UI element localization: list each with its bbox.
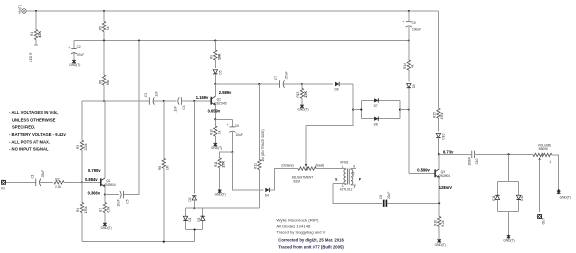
svg-text:130k: 130k [84, 206, 88, 213]
svg-text:27K: 27K [222, 161, 226, 168]
svg-text:D9: D9 [412, 84, 416, 88]
svg-text:D12: D12 [520, 195, 524, 201]
wire rail1 +9V top rail [26, 10, 438, 12]
wire floating rail bottom [82, 241, 195, 243]
wire D6 to corner down [339, 83, 353, 85]
svg-text:68k: 68k [106, 79, 110, 85]
svg-text:D6: D6 [335, 88, 339, 92]
resistor R10 (Q2 emitter) [210, 119, 222, 143]
svg-text:Traced by Soggybag and V: Traced by Soggybag and V [276, 230, 325, 235]
svg-text:2N3904: 2N3904 [105, 183, 116, 187]
svg-text:D2: D2 [188, 197, 192, 201]
svg-text:- ALL POTS AT MAX.: - ALL POTS AT MAX. [9, 139, 50, 144]
svg-text:+: + [227, 123, 229, 127]
node box left [360, 109, 362, 111]
node rail1/R5 junction [103, 10, 105, 12]
wire R3 top corner [81, 101, 83, 136]
svg-text:C4: C4 [182, 105, 186, 109]
svg-text:R5: R5 [98, 26, 102, 30]
svg-text:C10: C10 [475, 158, 479, 164]
svg-text:R9: R9 [210, 55, 214, 59]
capacitor C3 (coupling) [144, 91, 164, 104]
resistor R13 27K [296, 84, 308, 105]
svg-text:D1: D1 [188, 217, 192, 221]
node C3/R8 junction [163, 100, 165, 102]
svg-text:D7: D7 [374, 104, 378, 108]
svg-text:47uF: 47uF [77, 53, 84, 57]
capacitor C8 22uF [379, 192, 439, 207]
svg-text:0.659v: 0.659v [208, 109, 221, 114]
node Q1 emitter junction [104, 194, 106, 196]
transistor Q1 2N3904 [101, 101, 116, 195]
svg-text:130k: 130k [440, 112, 444, 119]
svg-text:C9: C9 [412, 21, 416, 25]
svg-text:10uF: 10uF [236, 133, 243, 137]
svg-text:100uF: 100uF [412, 28, 421, 32]
svg-text:LED R: LED R [29, 52, 33, 62]
node D9 line junction [408, 109, 410, 111]
capacitor C6 10uF (emitter bypass) [215, 119, 243, 152]
capacitor C4 (coupling) [173, 97, 211, 112]
svg-text:220k: 220k [84, 143, 88, 150]
svg-text:GND(T): GND(T) [435, 243, 446, 247]
node rail2/R9 [214, 39, 216, 41]
svg-text:1: 1 [342, 165, 344, 169]
svg-text:42TL012: 42TL012 [340, 188, 353, 192]
resistor R5 (rail1 to rail2) [98, 11, 110, 41]
svg-text:0.366v: 0.366v [88, 191, 101, 196]
node box right [399, 109, 401, 111]
svg-text:R2: R2 [55, 177, 59, 181]
svg-text:XFM1: XFM1 [340, 161, 349, 165]
svg-text:Wylie Moonrock (RIP): Wylie Moonrock (RIP) [276, 218, 319, 223]
node Q2 base / D2 branch [193, 100, 195, 102]
wire wiper riser to D6 node [306, 84, 353, 126]
svg-text:1M: 1M [166, 165, 170, 170]
wire rail1 right leg down [437, 11, 439, 104]
svg-text:1k: 1k [217, 130, 221, 134]
svg-text:D4: D4 [265, 194, 269, 198]
resistor R8 1M (to floating rail) [158, 101, 170, 242]
svg-text:R16: R16 [433, 220, 437, 226]
svg-text:(Octave): (Octave) [282, 164, 294, 168]
svg-text:10K: 10K [217, 53, 221, 60]
svg-text:128mV: 128mV [439, 185, 452, 190]
wire base wire to Q1 [82, 181, 101, 183]
wire XFM1 S- down to C8 [333, 184, 382, 204]
svg-text:- ALL VOLTAGES IN Vdc,: - ALL VOLTAGES IN Vdc, [9, 110, 58, 115]
wire trimmer right to XFM1 [316, 168, 345, 170]
capacitor C2 47uF (rail2 filter) [68, 41, 84, 60]
wire box right stub [400, 109, 409, 111]
svg-text:GND(T): GND(T) [560, 195, 571, 199]
wire IN to C1 [6, 181, 36, 183]
credits text block [276, 218, 344, 250]
node rail2/C5 riser [138, 39, 140, 41]
node rail1/R1 junction [35, 10, 37, 12]
svg-text:2N3904: 2N3904 [439, 174, 450, 178]
capacitor C10 100nF [468, 151, 533, 166]
svg-text:R1: R1 [30, 32, 34, 36]
resistor R12 1M (ON TRACE SIDE) [254, 84, 265, 208]
node D2 bottom / clip box top [193, 207, 195, 209]
svg-text:All Diodes 1n4148: All Diodes 1n4148 [276, 224, 310, 229]
diode D10 [436, 133, 445, 154]
wire rail2 (filtered supply) [74, 40, 409, 42]
node clip box bottom [194, 228, 196, 230]
svg-text:OUT: OUT [542, 218, 546, 225]
capacitor C1 (input coupling) [30, 170, 53, 186]
node R8 bottom [163, 241, 165, 243]
node Q2 collector / y84 wire [214, 83, 216, 85]
svg-text:- BATTERY VOLTAGE - 9.42v: - BATTERY VOLTAGE - 9.42v [9, 132, 66, 137]
diode D8 [374, 117, 379, 127]
wire diode box left stub [353, 109, 361, 111]
node C6 bottom / R11 [231, 151, 233, 153]
wire branch down to clipper box [508, 154, 510, 181]
resistor R15 130k [433, 104, 445, 131]
svg-text:R12: R12 [254, 163, 258, 169]
resistor R4 [76, 182, 88, 241]
svg-text:GND(T): GND(T) [503, 238, 514, 242]
svg-text:R14: R14 [403, 63, 407, 69]
svg-text:+: + [68, 46, 70, 50]
resistor R7 6.8k (Q1 emitter) [99, 195, 111, 223]
svg-text:1uF: 1uF [155, 91, 159, 97]
terminal OUT [537, 214, 545, 224]
svg-text:C8: C8 [379, 195, 383, 199]
node 0.790v Q1 collector node [103, 100, 105, 102]
ground R7 GND(T) [101, 223, 112, 231]
resistor R1 47K (LED R) [29, 30, 42, 63]
wire node to C4 [164, 100, 177, 102]
transformer XFM1 42TL012 [333, 161, 362, 192]
svg-text:1: 1 [549, 160, 551, 164]
svg-text:D5: D5 [219, 70, 223, 74]
svg-text:1.169v: 1.169v [196, 95, 209, 100]
svg-text:B500K: B500K [539, 147, 549, 151]
svg-text:(Beat): (Beat) [316, 164, 325, 168]
terminal IN [1, 180, 6, 191]
svg-text:B1M: B1M [294, 180, 301, 184]
diode D6 [335, 82, 340, 92]
svg-text:0.884v: 0.884v [85, 177, 98, 182]
svg-text:Traced from unit #77 (Built 20: Traced from unit #77 (Built 2005) [278, 245, 344, 250]
svg-text:C5: C5 [125, 199, 129, 203]
resistor R2 2.2k [54, 177, 82, 188]
svg-text:C7: C7 [274, 76, 278, 80]
ground R10 GND(T) [211, 143, 222, 150]
resistor R14 [403, 41, 415, 82]
+9v supply terminal [18, 5, 26, 14]
wire R11 link [220, 152, 233, 158]
clip box D1/D3 frame [186, 208, 203, 242]
svg-text:8.2k: 8.2k [441, 220, 445, 226]
svg-text:+: + [402, 20, 404, 24]
svg-text:2SC945: 2SC945 [215, 102, 227, 106]
svg-text:.05uF: .05uF [285, 71, 289, 79]
ground R11 GND(T) [215, 189, 226, 196]
resistor R6 (rail2 to Q1 collector node) [98, 41, 110, 102]
trimmer ADJUSTMENT B1M [282, 126, 325, 184]
node rail2/R5R6 [103, 39, 105, 41]
ground R13 GND(T) [297, 104, 308, 111]
node Q2 emitter junction [214, 118, 216, 120]
potentiometer VOLUME B500K [533, 143, 559, 212]
diode D5 [213, 70, 222, 84]
wire y84 node to C7 [215, 83, 279, 85]
wire C6 bottom to D4 [232, 152, 263, 190]
diode D1 [183, 216, 192, 222]
svg-text:0.790v: 0.790v [88, 168, 101, 173]
svg-text:6.73v: 6.73v [443, 149, 454, 154]
svg-text:GND(T): GND(T) [211, 146, 222, 150]
svg-text:2.2k: 2.2k [55, 185, 61, 189]
svg-text:1M (ON TRACE SIDE): 1M (ON TRACE SIDE) [261, 129, 265, 161]
svg-text:GND(T): GND(T) [215, 193, 226, 197]
wire Q1 collector node to C3 [82, 100, 149, 102]
svg-text:R10: R10 [210, 129, 214, 135]
resistor R3 220k [76, 136, 88, 183]
node R13 junction [301, 83, 303, 85]
wire R13 node to D6 [302, 83, 333, 85]
svg-text:GND(T): GND(T) [69, 63, 80, 67]
node 6.73v Q3 collector [438, 153, 440, 155]
svg-text:R11: R11 [214, 161, 218, 167]
node D11/D12 branch [507, 153, 509, 155]
svg-text:R8: R8 [158, 166, 162, 170]
diode box D7/D8 frame [361, 100, 400, 118]
transistor Q2 2SC945 [211, 84, 227, 119]
node diode-box left stub [352, 109, 354, 111]
resistor R16 8.2k [433, 203, 445, 239]
capacitor C9 100uF (supply filter) [402, 11, 421, 41]
svg-text:C2: C2 [77, 45, 81, 49]
svg-text:2.589v: 2.589v [219, 90, 232, 95]
transistor Q3 2N3904 [435, 154, 450, 203]
svg-text:100nF: 100nF [468, 157, 472, 166]
svg-text:SPECIFIED.: SPECIFIED. [12, 125, 35, 130]
clipper box D11/D12 frame [497, 182, 518, 235]
wire D9 to Q3 base [409, 172, 435, 174]
svg-text:C6: C6 [235, 124, 239, 128]
node R12 top [258, 83, 260, 85]
svg-text:R13: R13 [296, 91, 300, 97]
ground R16 GND(T) [435, 239, 446, 247]
node rail2/C9/R14 [408, 39, 410, 41]
svg-text:GND(T): GND(T) [101, 226, 112, 230]
svg-text:+9v(T): +9v(T) [18, 5, 22, 14]
diode D9 [407, 84, 416, 174]
svg-text:GND(T): GND(T) [297, 108, 308, 112]
svg-text:10uF: 10uF [116, 199, 120, 206]
capacitor C5 10uF (Q1 emitter bypass) [105, 41, 139, 207]
capacitor C7 (coupling to clipper) [274, 71, 302, 87]
svg-text:Corrected by digi2t, 25 Mar. 2: Corrected by digi2t, 25 Mar. 2016 [278, 237, 344, 242]
svg-text:5: 5 [353, 171, 355, 175]
svg-text:R4: R4 [76, 208, 80, 212]
svg-text:C1: C1 [30, 174, 34, 178]
svg-text:.05uF: .05uF [41, 170, 45, 178]
wire R1 leads [34, 11, 38, 45]
diode D3 [197, 216, 205, 222]
resistor R9 10K [210, 41, 222, 69]
wire D4 to trimmer left [270, 169, 298, 190]
svg-text:UNLESS OTHERWISE: UNLESS OTHERWISE [12, 118, 56, 123]
resistor R11 27K [214, 158, 226, 190]
wire clip box top to R12 bottom [203, 207, 260, 209]
svg-text:27K: 27K [304, 91, 308, 98]
ground clipper GND(T) [503, 235, 514, 243]
ground C2 GND(T) [69, 60, 80, 67]
svg-text:4k: 4k [411, 64, 415, 68]
svg-text:6: 6 [353, 165, 355, 169]
svg-text:0.599v: 0.599v [417, 168, 430, 173]
svg-text:1k: 1k [106, 26, 110, 30]
svg-text:D8: D8 [374, 122, 378, 126]
wire D2 branch down from Q2 base node [193, 101, 195, 194]
svg-text:22uF: 22uF [387, 192, 391, 199]
svg-text:.1uF: .1uF [173, 106, 177, 112]
diode D7 [374, 98, 379, 108]
svg-text:C3: C3 [144, 93, 148, 97]
svg-text:D10: D10 [442, 133, 446, 139]
svg-text:R6: R6 [98, 80, 102, 84]
svg-text:47K: 47K [38, 31, 42, 38]
diode D11 [492, 195, 499, 201]
svg-text:6.8k: 6.8k [107, 206, 111, 212]
svg-text:D11: D11 [492, 195, 496, 201]
diode D12 [516, 195, 524, 201]
svg-text:R3: R3 [76, 145, 80, 149]
notes text block [9, 110, 66, 151]
svg-text:4: 4 [354, 185, 356, 189]
node rail1/C9 junction [408, 10, 410, 12]
svg-text:R7: R7 [99, 208, 103, 212]
node R3/R4/base wire [81, 181, 83, 183]
svg-text:R15: R15 [433, 112, 437, 118]
diode D2 [188, 196, 196, 208]
diode D4 [265, 188, 270, 198]
node Q3 emitter junction [438, 202, 440, 204]
wire 6.73v node to C10 [439, 153, 471, 155]
ground pot GND(T) [557, 189, 571, 199]
svg-text:D3: D3 [197, 217, 201, 221]
svg-text:- NO INPUT SIGNAL: - NO INPUT SIGNAL [9, 146, 49, 151]
